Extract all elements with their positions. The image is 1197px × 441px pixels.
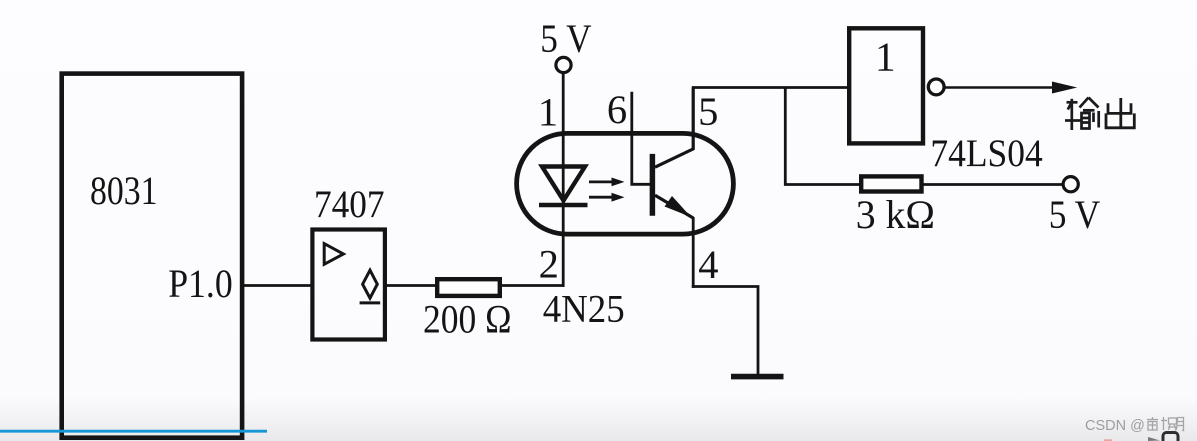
LED D1 triangle — [542, 167, 585, 201]
inverter output bubble — [928, 79, 944, 95]
svg-text:2: 2 — [539, 242, 559, 287]
wire 7407 output to R1 — [385, 284, 437, 287]
svg-text:3 kΩ: 3 kΩ — [856, 192, 935, 237]
svg-text:4N25: 4N25 — [543, 287, 625, 331]
bottom right logo fragment — [1148, 433, 1178, 441]
wire pin 4 to ground — [692, 287, 758, 375]
resistor R1 200 ohm body — [437, 279, 500, 296]
output arrowhead — [1052, 82, 1077, 94]
phototransistor Q1 pin 6 base lead — [632, 92, 650, 185]
ground — [731, 374, 784, 380]
phototransistor Q1 emitter arrowhead — [665, 196, 692, 217]
open-collector diamond symbol — [363, 270, 378, 298]
blue underline — [0, 430, 267, 433]
5V supply terminal right — [1063, 177, 1078, 192]
svg-text:1: 1 — [538, 90, 558, 135]
wire R1 to opto pin 2 — [500, 284, 565, 287]
watermark nan lou yue hand-drawn — [1147, 417, 1184, 431]
wire R2 to right 5V terminal — [922, 183, 1064, 186]
label shu (output char 1) hand-drawn — [1065, 98, 1099, 131]
svg-text:7407: 7407 — [314, 182, 385, 226]
wire opto pin 5 to inverter input — [692, 86, 849, 89]
svg-text:5: 5 — [698, 89, 718, 134]
inverter U4 74LS04 box — [849, 28, 923, 143]
wire opto pin 4 down — [692, 217, 695, 288]
svg-text:4: 4 — [698, 242, 718, 287]
light emission arrow lower — [589, 193, 625, 202]
IC U1 8031 box — [62, 74, 242, 438]
light emission arrow upper — [589, 178, 625, 187]
buffer triangle symbol — [324, 244, 343, 265]
optocoupler U3 4N25 body — [517, 133, 734, 234]
svg-text:5 V: 5 V — [540, 16, 591, 61]
svg-text:CSDN @: CSDN @ — [1085, 418, 1145, 434]
output wire — [944, 86, 1056, 89]
wire P1.0 to 7407 input — [244, 284, 313, 287]
phototransistor Q1 base bar — [650, 154, 656, 216]
label chu (output char 2) hand-drawn — [1106, 98, 1134, 128]
red dot fragment — [1104, 439, 1112, 441]
5V supply terminal top — [556, 57, 571, 72]
buffer U2 7407 box — [312, 230, 385, 340]
wire 5V terminal to opto pin 1 / LED anode / pin 2 — [562, 73, 565, 287]
phototransistor Q1 collector — [655, 88, 693, 168]
svg-text:P1.0: P1.0 — [168, 261, 233, 306]
phototransistor Q1 emitter — [655, 195, 693, 218]
svg-text:5 V: 5 V — [1049, 192, 1101, 237]
open-collector bar — [360, 301, 381, 304]
svg-text:1: 1 — [875, 34, 896, 80]
svg-text:6: 6 — [607, 87, 627, 132]
svg-text:74LS04: 74LS04 — [930, 132, 1042, 175]
svg-text:8031: 8031 — [90, 168, 158, 213]
resistor R2 3k ohm body — [861, 176, 921, 191]
svg-text:200 Ω: 200 Ω — [423, 297, 512, 342]
node A branch to pull-up resistor — [785, 88, 862, 185]
LED D1 cathode bar — [539, 203, 588, 208]
